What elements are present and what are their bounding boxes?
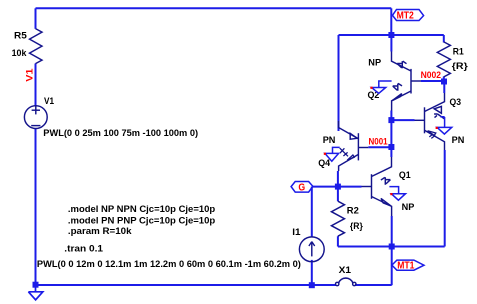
- wire left rail V1 to bottom: [35, 129, 37, 285]
- svg-text:G: G: [298, 182, 305, 193]
- svg-text:MT2: MT2: [397, 11, 414, 22]
- transistor Q2 (NPN mirrored): [392, 52, 422, 111]
- junction I1 bottom: [309, 282, 315, 288]
- svg-text:NP: NP: [402, 202, 415, 212]
- ground: [28, 285, 42, 300]
- junction Q3 base tap: [388, 117, 394, 123]
- svg-text:.param R=10k: .param R=10k: [68, 226, 133, 236]
- current source I1: [299, 237, 324, 262]
- wire R1 bottom to N002 junction: [443, 77, 445, 83]
- svg-text:Q2: Q2: [368, 90, 380, 100]
- wire MT1 drop: [391, 247, 393, 286]
- wire N001 down to Q1 collector: [390, 147, 392, 157]
- svg-text:10k: 10k: [12, 48, 28, 58]
- svg-text:{R}: {R}: [452, 61, 468, 71]
- svg-text:PN: PN: [452, 135, 465, 145]
- svg-text:Q4: Q4: [318, 158, 331, 168]
- wire Q2 emitter down through junction to N001: [390, 111, 392, 148]
- svg-text:PWL(0 0 12m 0 12.1m 1m 12.2m 0: PWL(0 0 12m 0 12.1m 1m 12.2m 0 60m 0 60.…: [37, 259, 301, 269]
- port flag G: [291, 182, 313, 193]
- svg-text:V1: V1: [44, 96, 54, 106]
- Q2 flag: [379, 81, 392, 87]
- svg-text:.model PN PNP Cjc=10p Cje=10p: .model PN PNP Cjc=10p Cje=10p: [68, 216, 216, 226]
- wire left rail top: [35, 8, 37, 29]
- junction mid rail: [389, 244, 395, 250]
- svg-text:N001: N001: [369, 137, 388, 147]
- svg-text:.model NP NPN Cjc=10p Cje=10p: .model NP NPN Cjc=10p Cje=10p: [68, 204, 216, 214]
- wire N001 to Q4 base: [368, 146, 391, 148]
- transistor Q4 (PNP mirrored): [339, 121, 369, 171]
- resistor R2: [331, 201, 344, 236]
- svg-text:R5: R5: [14, 31, 27, 41]
- wire bottom rail left of X1: [36, 284, 337, 286]
- wire top rail: [36, 7, 392, 9]
- wire I1 bottom to bottom rail: [311, 260, 313, 285]
- wire Q1 emitter down to mid rail: [391, 216, 393, 247]
- port flag MT2: [393, 10, 424, 21]
- svg-text:N002: N002: [421, 70, 441, 80]
- svg-text:PWL(0 0 25m 100 75m -100 100m: PWL(0 0 25m 100 75m -100 100m 0): [43, 128, 198, 138]
- svg-text:PN: PN: [323, 135, 336, 145]
- wire Q3 collector down right branch: [444, 150, 446, 247]
- wire G flag to junction: [312, 186, 338, 188]
- wire N002 down to Q3 emitter: [443, 82, 445, 93]
- svg-text:Q3: Q3: [450, 97, 462, 107]
- wire MT2 stub: [390, 8, 392, 35]
- voltage source V1: [24, 106, 47, 129]
- transistor Q1 (NPN): [362, 157, 392, 216]
- Q1 flag: [389, 187, 398, 194]
- wire Q2 collector stub up: [390, 35, 392, 52]
- svg-text:Q1: Q1: [399, 170, 411, 180]
- wire R1 top lead: [443, 35, 445, 43]
- wire left branch Q4 emitter column: [338, 35, 340, 131]
- transistor Q3 (PNP): [415, 93, 445, 150]
- wire mid rail R2 to right branch: [338, 246, 445, 248]
- junction N001: [388, 144, 394, 150]
- port flag MT1: [392, 260, 424, 270]
- wire top-right rail to R1: [339, 34, 444, 36]
- svg-text:{R}: {R}: [350, 221, 363, 231]
- junction top MT2: [388, 32, 394, 38]
- wire Q4 collector stub to G junction: [337, 171, 339, 187]
- svg-text:MT1: MT1: [397, 261, 415, 272]
- svg-text:V1: V1: [23, 69, 34, 82]
- resistor R1: [437, 42, 450, 77]
- svg-text:R2: R2: [347, 205, 359, 215]
- svg-text:X1: X1: [339, 265, 351, 275]
- svg-text:I1: I1: [292, 227, 300, 237]
- wire G junction to Q1 base: [338, 186, 362, 188]
- wire left rail R5 to V1: [35, 64, 37, 106]
- junction ground: [33, 282, 39, 288]
- junction N002: [441, 79, 447, 85]
- wire G down to I1 top: [311, 187, 313, 237]
- wire Q2 base to N002: [421, 80, 445, 82]
- wire bottom rail right of X1: [355, 284, 392, 286]
- svg-text:R1: R1: [453, 47, 464, 57]
- subcircuit X1: [336, 278, 356, 286]
- resistor R5: [30, 29, 43, 64]
- svg-text:.tran 0.1: .tran 0.1: [64, 243, 103, 253]
- wire R2 top lead: [337, 187, 339, 202]
- Q3 flag: [440, 117, 444, 128]
- junction G node: [335, 184, 341, 190]
- wire junction to Q3 base: [391, 119, 414, 121]
- Q4 flag: [333, 147, 340, 153]
- wire R2 bottom to mid rail: [337, 236, 339, 246]
- svg-text:NP: NP: [368, 58, 381, 68]
